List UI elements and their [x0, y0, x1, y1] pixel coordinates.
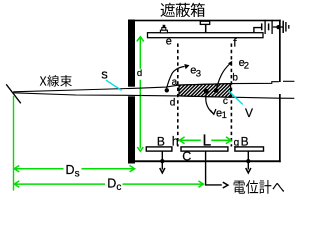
svg-text:a: a	[172, 77, 178, 88]
arrowhead L right	[226, 137, 231, 144]
svg-text:s: s	[75, 169, 80, 180]
svg-text:2: 2	[244, 60, 249, 71]
arrowhead e1	[210, 109, 216, 114]
svg-text:d: d	[170, 98, 176, 109]
hanger box from top wall	[200, 21, 209, 24]
X-ray beam lower edge	[13, 93, 294, 99]
battery cell long plate 2	[271, 20, 273, 34]
arrowhead right guard	[246, 168, 251, 173]
insulator base	[160, 30, 167, 33]
collector wire	[206, 151, 222, 185]
label 電位計へ (to electrometer)	[234, 180, 285, 194]
arrowhead Dc right	[198, 181, 203, 187]
dimension arrow L left segment (green)	[180, 139, 201, 141]
wire battery to box corner	[273, 26, 279, 28]
svg-text:b: b	[232, 72, 238, 83]
svg-text:e: e	[166, 35, 172, 47]
arrowhead d top	[137, 37, 144, 42]
svg-text:s: s	[101, 67, 108, 82]
battery cell short plate 2	[268, 23, 270, 30]
svg-text:L: L	[203, 132, 212, 149]
source reference line (green vertical)	[13, 96, 15, 191]
dimension arrow L right segment (green)	[211, 139, 231, 141]
shield box bottom wall	[135, 160, 281, 162]
svg-text:c: c	[116, 182, 121, 193]
junction dot	[276, 25, 280, 29]
label 遮蔽箱 (shield box title)	[161, 3, 205, 17]
guard plate B right	[235, 147, 264, 151]
diaphragm wall upper (thick bar)	[128, 20, 135, 87]
svg-text:B: B	[241, 134, 249, 148]
svg-text:V: V	[245, 106, 253, 120]
X-ray beam upper edge	[13, 82, 279, 92]
arrowhead Dc left	[14, 181, 19, 187]
shield box right wall upper segment	[279, 20, 281, 82]
shield box top wall	[135, 20, 281, 22]
svg-text:C: C	[182, 150, 191, 164]
guard boundary f (dashed line)	[230, 44, 232, 147]
X-ray beam upper edge outside box	[283, 80, 294, 82]
electron arrow e2	[216, 64, 229, 88]
electron arrow e1	[206, 94, 213, 113]
svg-text:B: B	[157, 134, 165, 148]
wire plate A to battery	[254, 28, 261, 33]
sensitive volume (hatched)	[179, 84, 231, 98]
arrowhead left guard	[160, 168, 165, 173]
dimension arrow d upper segment (green)	[139, 38, 141, 69]
svg-text:c: c	[223, 96, 228, 107]
svg-text:h: h	[172, 134, 179, 148]
label X線束 (X-ray beam)	[40, 75, 72, 87]
svg-text:1: 1	[222, 110, 227, 121]
shield box right wall lower segment	[279, 94, 281, 162]
svg-text:D: D	[107, 177, 116, 191]
svg-text:3: 3	[196, 69, 201, 80]
guard boundary e (dashed line)	[177, 44, 179, 147]
X-ray tube target (diagonal stroke)	[6, 84, 21, 103]
pointer line from s to slit (cyan)	[106, 80, 122, 90]
ion pair dot 2 in volume	[214, 88, 219, 93]
guard wire right	[247, 151, 249, 169]
electron arrow e3	[167, 66, 185, 88]
arrowhead collector wire	[223, 182, 228, 188]
dimension arrow Dc left segment (green)	[14, 183, 105, 185]
insulator cap on plate A	[163, 25, 166, 28]
guard plate B left	[146, 147, 172, 151]
collector plate A	[148, 33, 264, 38]
svg-text:d: d	[137, 68, 142, 79]
ion pair dot 1 in volume	[204, 89, 209, 94]
guard wire left	[161, 151, 163, 169]
dimension arrow Ds left segment (green)	[14, 168, 63, 170]
arrowhead Ds left	[14, 166, 19, 172]
arrowhead Ds right	[130, 166, 135, 172]
arrowhead d bottom	[137, 147, 143, 151]
dimension arrow Dc right segment (green)	[123, 183, 204, 185]
junction dot left guard	[160, 159, 164, 163]
hanger stem	[205, 24, 207, 32]
svg-text:g: g	[234, 137, 240, 148]
insulator neck	[162, 28, 166, 31]
svg-text:D: D	[66, 163, 75, 177]
diaphragm wall lower (thick bar)	[128, 96, 135, 163]
arrowhead L left	[179, 137, 184, 144]
ion pair dot (left of volume)	[165, 88, 169, 92]
battery cell short plate 1	[261, 23, 263, 30]
dimension arrow d lower segment (green)	[139, 80, 141, 149]
ground line short	[288, 25, 290, 29]
pointer line to V (cyan)	[228, 91, 242, 105]
battery cell long plate 1	[264, 20, 266, 34]
junction dot right guard	[246, 159, 250, 163]
wire junction to ground	[280, 26, 283, 28]
collecting plate C	[181, 147, 228, 151]
ground line mid	[285, 22, 287, 32]
ground line long	[282, 21, 284, 33]
dimension arrow Ds right segment (green)	[82, 168, 135, 170]
